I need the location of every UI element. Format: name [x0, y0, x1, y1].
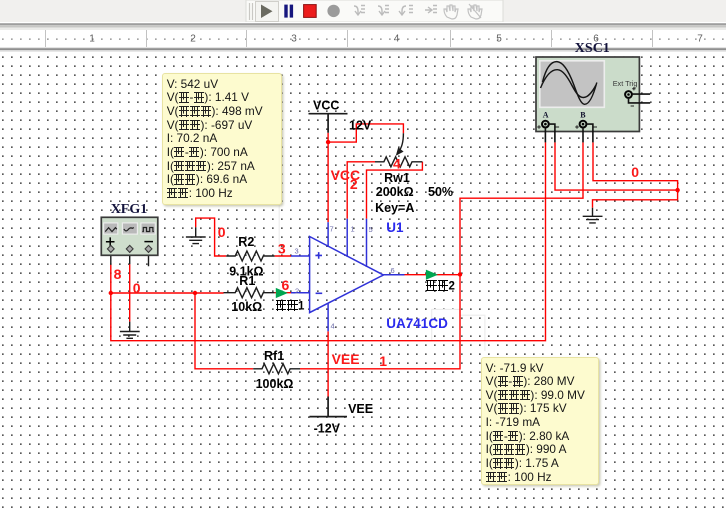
- svg-text:4: 4: [393, 156, 401, 172]
- pause button: [284, 5, 287, 18]
- toolbar gripper: [250, 3, 253, 20]
- probe arrow 探针2: [426, 270, 438, 280]
- svg-text:6: 6: [282, 277, 290, 293]
- ground (XFG center): [120, 322, 140, 339]
- svg-text:R1: R1: [239, 274, 255, 288]
- XFG1 terminal diamonds: [107, 245, 151, 252]
- step icons (disabled): [354, 6, 437, 16]
- svg-text:12V: 12V: [349, 119, 372, 133]
- potentiometer Rw1 body: [375, 157, 422, 167]
- wire net8 horizontal to R1: [111, 292, 224, 294]
- wire output to Rf1: [300, 274, 460, 369]
- pin 6 line: [383, 274, 404, 276]
- junction op-amp output: [458, 272, 462, 276]
- play button: [256, 2, 279, 22]
- XSC1 body: [536, 57, 639, 132]
- junction scope net0: [675, 188, 679, 192]
- svg-text:100kΩ: 100kΩ: [256, 377, 294, 391]
- XFG1 body: [101, 217, 158, 255]
- stop button: [304, 5, 317, 18]
- resistor R1: [224, 288, 275, 298]
- pin 4 line: [327, 304, 329, 332]
- svg-text:0: 0: [631, 164, 639, 180]
- pin 5 line: [366, 219, 368, 267]
- svg-text:1: 1: [351, 225, 355, 234]
- XFG1 pin stubs: [111, 255, 149, 266]
- svg-text:Rf1: Rf1: [264, 349, 284, 363]
- VCC supply symbol: [309, 114, 348, 133]
- svg-text:2: 2: [295, 287, 299, 296]
- hand icons (disabled): [444, 4, 482, 19]
- svg-text:1: 1: [379, 353, 387, 369]
- wire output to scope B: [460, 142, 583, 274]
- probe arrow 探针1: [276, 288, 288, 298]
- svg-text:1: 1: [89, 34, 95, 45]
- faint probe leader box (probe 2): [432, 309, 485, 351]
- svg-text:Rw1: Rw1: [384, 171, 410, 185]
- probe readout box 2 (探针2): [481, 357, 600, 485]
- probe label 探针1: [275, 300, 304, 313]
- junction R1 left node: [193, 291, 197, 295]
- wire pin4 to VEE supply: [327, 331, 329, 396]
- resistor Rf1: [253, 364, 300, 374]
- svg-text:50%: 50%: [428, 185, 453, 199]
- pin 2 line: [291, 292, 310, 294]
- pin 3 line: [291, 255, 310, 257]
- svg-text:3: 3: [278, 240, 286, 256]
- potentiometer wiper arrow shaft: [399, 133, 404, 151]
- svg-text:U1: U1: [386, 220, 404, 235]
- svg-text:5: 5: [496, 34, 502, 45]
- XSC1 ext trig stubs: [632, 93, 650, 95]
- svg-text:0: 0: [218, 224, 226, 240]
- wire pot right to pin5: [367, 162, 423, 219]
- wire net0 ground to R2: [196, 218, 227, 256]
- ground (scope net0): [583, 208, 603, 223]
- svg-text:VEE: VEE: [332, 351, 360, 367]
- svg-text:3: 3: [295, 247, 299, 256]
- XSC1 channel A terminal: [542, 121, 549, 128]
- faint probe leader line (probe 1): [278, 205, 280, 286]
- XSC1 channel B terminal: [580, 121, 587, 128]
- op-amp plus input mark: [315, 252, 322, 259]
- toolbar strip: [0, 0, 726, 22]
- wire scope B- net0 loop to ground: [593, 142, 678, 207]
- svg-text:XSC1: XSC1: [575, 41, 610, 56]
- XSC1 waveform trace 2: [541, 70, 597, 98]
- svg-text:Key=A: Key=A: [375, 201, 414, 215]
- svg-text:R2: R2: [238, 235, 254, 249]
- svg-text:7: 7: [330, 225, 334, 234]
- junction XFG+/net8: [109, 291, 113, 295]
- svg-text:VEE: VEE: [348, 402, 373, 416]
- VEE supply symbol: [310, 397, 348, 417]
- svg-text:B: B: [580, 110, 586, 119]
- window inner border band: [0, 22, 726, 23]
- svg-text:4: 4: [331, 322, 335, 331]
- XSC1 internal channel wires: [545, 94, 650, 142]
- ruler band: [0, 30, 726, 47]
- wire R1 to pin2: [275, 292, 291, 294]
- XSC1 waveform trace 1: [543, 62, 597, 105]
- wire net8 to scope A: [111, 142, 546, 340]
- XSC1 terminal +/- marks: [537, 87, 635, 129]
- resistor R2: [226, 251, 274, 261]
- svg-text:5: 5: [369, 225, 373, 234]
- svg-text:XFG1: XFG1: [111, 202, 148, 217]
- svg-text:UA741CD: UA741CD: [386, 316, 448, 331]
- pin 7 line: [327, 222, 329, 247]
- wire scope A- to net0: [555, 142, 678, 190]
- probe label 探针2: [426, 280, 455, 293]
- wire net0 XFG center: [129, 264, 131, 321]
- svg-text:0: 0: [133, 280, 141, 296]
- potentiometer wiper arrowhead: [396, 147, 404, 156]
- wire VCC rail to pin7: [327, 133, 329, 222]
- svg-text:10kΩ: 10kΩ: [231, 300, 262, 314]
- wire VCC branch to pot wiper: [328, 124, 403, 142]
- junction VCC rail: [326, 140, 330, 144]
- pin 1 line: [346, 219, 348, 257]
- pause-at condition circle: [327, 5, 339, 17]
- svg-text:4: 4: [394, 34, 400, 45]
- op-amp minus input mark: [316, 292, 323, 294]
- svg-text:7: 7: [697, 34, 703, 45]
- wire net8 XFG+ down: [110, 265, 112, 293]
- svg-text:8: 8: [114, 266, 122, 282]
- svg-text:2: 2: [350, 176, 358, 192]
- XSC1 screen: [540, 61, 605, 108]
- XSC1 ext trig terminal: [625, 91, 632, 98]
- XFG1 plus terminal label: [106, 237, 115, 246]
- wire R2 to pin3: [275, 255, 291, 257]
- op-amp triangle: [310, 237, 384, 313]
- ground (R2 / net0): [186, 227, 206, 243]
- svg-text:200kΩ: 200kΩ: [376, 185, 414, 199]
- svg-text:2: 2: [190, 34, 196, 45]
- svg-text:A: A: [543, 110, 549, 119]
- ruler bottom border: [0, 47, 726, 48]
- wire output to junction: [405, 274, 461, 276]
- svg-text:VCC: VCC: [313, 99, 339, 113]
- svg-text:-12V: -12V: [314, 421, 341, 435]
- svg-text:Ext Trig: Ext Trig: [613, 79, 638, 88]
- wire pot left to pin1: [347, 162, 375, 219]
- svg-text:6: 6: [391, 266, 395, 275]
- XFG1 minus terminal label: [144, 241, 153, 243]
- probe readout box 1 (探针1): [162, 73, 282, 205]
- svg-text:3: 3: [291, 34, 297, 45]
- XFG1 wave buttons: [104, 223, 118, 234]
- wire Rf1 to input node: [195, 293, 253, 369]
